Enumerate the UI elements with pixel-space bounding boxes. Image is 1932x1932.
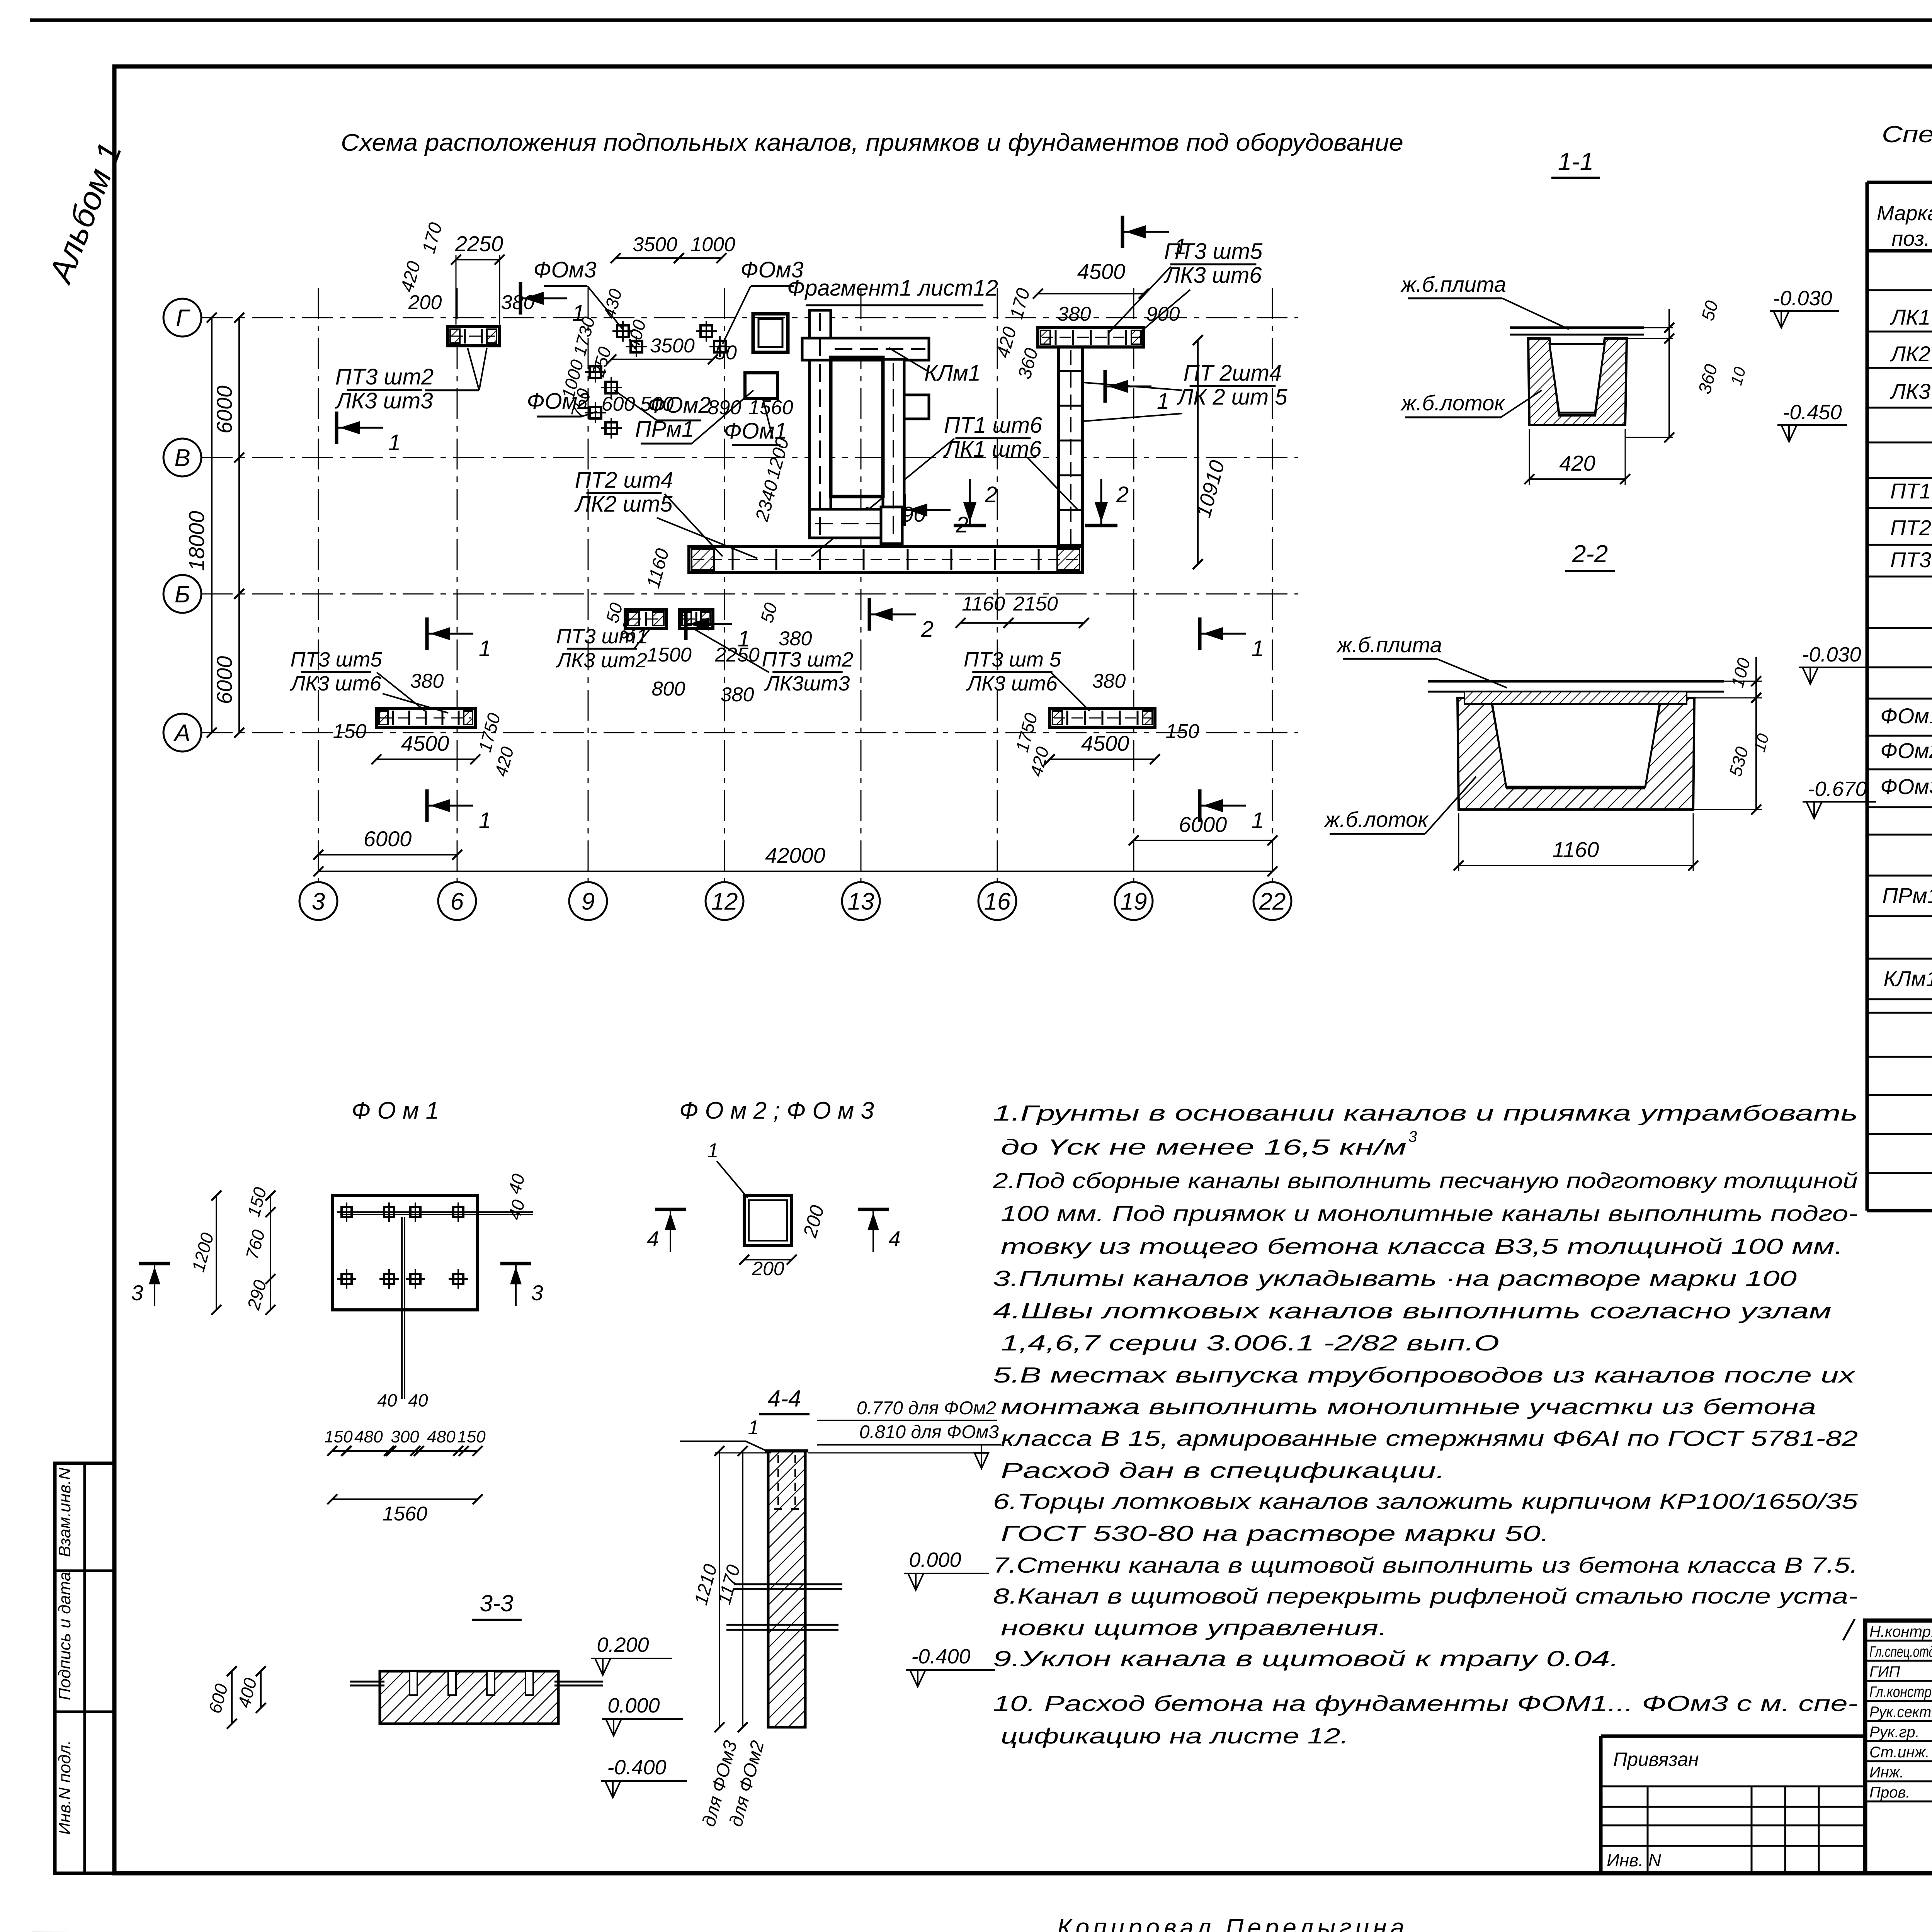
svg-text:ПТ3 шт 5: ПТ3 шт 5 — [964, 648, 1061, 671]
svg-text:Б: Б — [175, 581, 190, 608]
svg-text:-0.400: -0.400 — [607, 1756, 666, 1779]
svg-text:150: 150 — [457, 1427, 486, 1446]
section 1 marks А left channel — [425, 617, 429, 650]
left stamp box — [55, 1463, 114, 1873]
bottom dimension lines 6000/42000 — [313, 812, 1277, 876]
svg-text:-0.400: -0.400 — [911, 1645, 970, 1668]
svg-text:ЛК3 шт3: ЛК3 шт3 — [334, 388, 433, 413]
svg-text:1: 1 — [1174, 234, 1187, 259]
channel row А left: ПТ3 шт5 / ЛК3 шт6 — [376, 708, 475, 727]
foundation squares cluster — [585, 321, 730, 439]
svg-text:ЛК2: ЛК2 — [1890, 342, 1931, 366]
section 2 marks — [903, 494, 906, 526]
svg-text:Ф О м 2 ; Ф О м 3: Ф О м 2 ; Ф О м 3 — [679, 1097, 874, 1124]
svg-text:150: 150 — [324, 1427, 353, 1446]
svg-text:40: 40 — [408, 1390, 428, 1410]
svg-text:0.810 для ФОм3: 0.810 для ФОм3 — [859, 1422, 999, 1442]
svg-text:поз.: поз. — [1891, 227, 1930, 250]
svg-text:А: А — [173, 720, 190, 747]
svg-text:50: 50 — [714, 342, 737, 364]
svg-text:Ф О м 1: Ф О м 1 — [352, 1097, 439, 1124]
svg-text:ПТ3 шт5: ПТ3 шт5 — [291, 648, 383, 671]
detail ФОм2 leader 1 — [717, 1161, 748, 1198]
svg-text:2.Под сборные каналы выполнить: 2.Под сборные каналы выполнить песчаную … — [993, 1168, 1858, 1193]
svg-text:8.Канал в щитовой перекрыт: 8.Канал в щитовой перекрыть рифленой ста… — [993, 1584, 1858, 1609]
detail 4-4 pipes crossing — [734, 1583, 842, 1585]
svg-text:2250: 2250 — [714, 644, 760, 666]
svg-text:150: 150 — [333, 720, 367, 743]
detail ФОм1 bottom dims — [332, 1450, 478, 1452]
svg-text:1.Грунты в основании каналов и: 1.Грунты в основании каналов и приямка у… — [993, 1101, 1858, 1126]
svg-text:Марка,: Марка, — [1877, 202, 1932, 225]
svg-text:2-2: 2-2 — [1572, 540, 1608, 568]
svg-text:800: 800 — [652, 678, 685, 700]
svg-text:Гл.констр.: Гл.констр. — [1869, 1684, 1932, 1701]
svg-text:Спецификация к схеме расположе: Спецификация к схеме расположения подпол… — [1882, 121, 1932, 147]
svg-text:ЛК2 шт5: ЛК2 шт5 — [574, 492, 673, 517]
svg-text:Ст.инж.: Ст.инж. — [1869, 1744, 1930, 1761]
svg-text:В: В — [174, 445, 190, 471]
svg-text:ФОм3: ФОм3 — [1880, 774, 1932, 799]
svg-text:ЛК3 шт6: ЛК3 шт6 — [966, 672, 1058, 695]
svg-text:500: 500 — [640, 393, 674, 415]
svg-text:Рук.сект.: Рук.сект. — [1869, 1704, 1932, 1721]
svg-text:10. Расход бетона на фунд: 10. Расход бетона на фундаменты ФОМ1... … — [993, 1691, 1858, 1716]
svg-text:1: 1 — [1157, 389, 1169, 414]
plan row axes — [163, 288, 1298, 920]
spec table grid — [1867, 182, 1932, 1211]
svg-text:Н.контр.: Н.контр. — [1869, 1623, 1932, 1640]
section 1-1 trough — [1528, 338, 1627, 425]
svg-text:1: 1 — [479, 808, 491, 833]
svg-text:40: 40 — [377, 1390, 397, 1410]
svg-text:ЛК3: ЛК3 — [1890, 379, 1931, 403]
svg-text:200: 200 — [408, 291, 442, 314]
svg-text:19: 19 — [1121, 888, 1147, 915]
section 1-1 slab — [1510, 327, 1644, 329]
svg-text:380: 380 — [1092, 670, 1126, 692]
svg-text:Инв. N: Инв. N — [1607, 1850, 1662, 1870]
svg-text:5.В местах выпуска трубопров: 5.В местах выпуска трубопроводов из кана… — [993, 1363, 1856, 1388]
svg-text:1-1: 1-1 — [1558, 148, 1594, 175]
svg-text:380: 380 — [501, 291, 535, 314]
svg-text:900: 900 — [1146, 303, 1180, 325]
svg-text:0.200: 0.200 — [597, 1633, 649, 1656]
notes block — [993, 1101, 1858, 1748]
svg-text:2: 2 — [1116, 482, 1129, 507]
svg-text:ФОм2: ФОм2 — [1880, 738, 1932, 763]
КЛм1 wall centerline dashes — [815, 313, 925, 541]
dim 420 below section 1-1 — [1529, 478, 1625, 480]
svg-text:6000: 6000 — [364, 827, 412, 851]
svg-text:ЛК3шт3: ЛК3шт3 — [764, 672, 850, 695]
svg-text:300: 300 — [391, 1427, 419, 1446]
svg-text:-0.450: -0.450 — [1782, 401, 1842, 424]
mid channels below Б: ПТ3 шт1/ЛК3 шт2 and ПТ3 шт2/ЛК3шт3 — [625, 609, 667, 628]
section mark 1 near top-left channel — [519, 282, 522, 315]
svg-text:16: 16 — [984, 888, 1011, 915]
dims 3500 1000 top cluster — [616, 257, 679, 259]
svg-text:2250: 2250 — [455, 231, 503, 256]
svg-text:1000: 1000 — [690, 233, 735, 256]
svg-text:ПТ2: ПТ2 — [1890, 515, 1931, 540]
svg-text:2: 2 — [985, 482, 997, 507]
channel top-left ПТ3 шт2 / ЛК3 шт3 — [447, 327, 499, 346]
svg-text:1560: 1560 — [383, 1503, 427, 1525]
slash mark — [1843, 1619, 1855, 1640]
svg-text:4500: 4500 — [1081, 731, 1129, 755]
svg-text:2: 2 — [921, 617, 934, 642]
section 2-2 slab hatch — [1464, 692, 1687, 704]
priamok ПРм1 squares — [753, 314, 788, 352]
svg-text:до Үск не менее 16,5 кн/м: до Үск не менее 16,5 кн/м — [1001, 1135, 1406, 1160]
svg-text:1500: 1500 — [647, 644, 692, 666]
svg-text:ГИП: ГИП — [1869, 1663, 1900, 1680]
svg-text:Привязан: Привязан — [1613, 1748, 1699, 1770]
detail ФОм1 left dims — [270, 1196, 271, 1310]
vertical channel dividers — [1060, 350, 1081, 546]
svg-text:1: 1 — [1252, 808, 1264, 833]
svg-text:1: 1 — [738, 626, 750, 651]
dim 1160 below section 2-2 — [1459, 865, 1693, 866]
svg-text:890: 890 — [708, 396, 742, 419]
svg-text:4: 4 — [647, 1226, 659, 1251]
detail ФОм1 section marks 3 — [139, 1262, 170, 1265]
section 2-2 slab — [1428, 680, 1724, 683]
svg-text:цификацию на листе 12.: цификацию на листе 12. — [1001, 1724, 1349, 1748]
title block roles/names/dates — [1869, 1622, 1932, 1801]
detail 4-4 anchor dashed — [777, 1455, 779, 1509]
svg-text:товку из тощего бетона к: товку из тощего бетона класса В3,5 толщи… — [1001, 1234, 1843, 1259]
title block signature grid — [1865, 1621, 1932, 1873]
channel row А right: ПТ3 шт5 / ЛК3 шт6 — [1050, 708, 1155, 727]
svg-text:-0.030: -0.030 — [1802, 643, 1861, 666]
svg-text:Подпись и дата: Подпись и дата — [55, 1572, 74, 1701]
svg-text:1: 1 — [748, 1417, 759, 1439]
svg-text:ПТ3 шт2: ПТ3 шт2 — [762, 648, 854, 671]
svg-text:ж.б.плита: ж.б.плита — [1336, 633, 1442, 657]
svg-text:1: 1 — [479, 636, 491, 661]
vertical channel right (ПТ 2шт4 / ЛК 2шт5) — [1059, 347, 1083, 548]
detail 3-3 slab — [380, 1671, 558, 1724]
svg-text:ЛК3 шт2: ЛК3 шт2 — [556, 649, 647, 672]
detail ФОм2 square — [744, 1196, 792, 1245]
dims 3500 50 — [611, 359, 713, 360]
svg-text:ЛК3 шт6: ЛК3 шт6 — [1163, 263, 1262, 288]
svg-text:1160: 1160 — [1553, 837, 1599, 862]
svg-text:480: 480 — [354, 1427, 383, 1446]
section mark 1 above — [1121, 216, 1124, 248]
section 1 marks А right channel — [1198, 617, 1202, 650]
svg-text:-0.030: -0.030 — [1773, 287, 1832, 310]
svg-text:монтажа выполнить монолитны: монтажа выполнить монолитные участки из … — [1001, 1395, 1816, 1419]
svg-text:ЛК1 шт6: ЛК1 шт6 — [943, 437, 1042, 462]
lower-left stamp Привязан — [1601, 1735, 1865, 1738]
svg-text:-0.670: -0.670 — [1808, 777, 1867, 801]
svg-text:150: 150 — [1166, 720, 1199, 743]
svg-text:ПТ1: ПТ1 — [1890, 479, 1931, 503]
svg-text:9.Уклон канала в щитовой: 9.Уклон канала в щитовой к трапу 0.04. — [993, 1646, 1619, 1671]
svg-text:3500: 3500 — [633, 233, 677, 256]
svg-text:ФОм1: ФОм1 — [1880, 704, 1932, 728]
svg-text:ж.б.лоток: ж.б.лоток — [1400, 391, 1505, 415]
svg-text:12: 12 — [711, 888, 738, 915]
long bottom channel ПТ1 шт6 / ЛК1 шт6 — [689, 546, 1082, 573]
svg-text:200: 200 — [752, 1258, 784, 1279]
svg-text:9: 9 — [582, 888, 595, 915]
svg-text:1560: 1560 — [748, 396, 793, 419]
svg-text:22: 22 — [1259, 888, 1286, 915]
section 2 mark mid — [868, 598, 871, 631]
svg-text:2150: 2150 — [1013, 593, 1058, 615]
left dimension lines 6000/18000 — [184, 313, 244, 738]
section 1 mark mid — [684, 608, 688, 640]
title block outer — [1865, 1621, 1932, 1873]
svg-text:6000: 6000 — [212, 386, 236, 434]
svg-text:6.Торцы лотковых каналов: 6.Торцы лотковых каналов заложить кирпич… — [993, 1489, 1858, 1514]
svg-text:КЛм1: КЛм1 — [924, 361, 981, 386]
svg-text:ж.б.плита: ж.б.плита — [1400, 272, 1506, 296]
svg-text:1: 1 — [1252, 636, 1264, 661]
svg-text:1: 1 — [388, 430, 401, 455]
svg-text:4: 4 — [888, 1226, 900, 1251]
section 1-1 inner cavity — [1549, 344, 1605, 413]
svg-text:4.Швы лотковых каналов: 4.Швы лотковых каналов выполнить согласн… — [993, 1299, 1832, 1323]
section 2-2 trough hatched — [1458, 698, 1694, 810]
svg-text:ПТ1 шт6: ПТ1 шт6 — [944, 413, 1043, 438]
section mark 1 on vertical channel — [1104, 370, 1107, 403]
svg-text:420: 420 — [1559, 451, 1595, 475]
svg-text:1,4,6,7 серии 3.006.1 -2/8: 1,4,6,7 серии 3.006.1 -2/82 вып.О — [1001, 1331, 1499, 1355]
section 2-2 inner cavity — [1492, 704, 1660, 787]
svg-text:0.000: 0.000 — [607, 1694, 660, 1717]
lower-left stamp grid — [1601, 1786, 1865, 1873]
svg-text:380: 380 — [1058, 303, 1091, 325]
svg-text:380: 380 — [779, 628, 812, 650]
svg-text:ЛК1: ЛК1 — [1890, 305, 1931, 329]
svg-text:7.Стенки канала в щитовой: 7.Стенки канала в щитовой выполнить из б… — [993, 1553, 1858, 1578]
svg-text:ПТ3 шт1: ПТ3 шт1 — [556, 625, 648, 648]
svg-text:Фрагмент1 лист12: Фрагмент1 лист12 — [787, 276, 998, 301]
svg-text:3-3: 3-3 — [480, 1590, 514, 1616]
detail 3-3 left dims 600 400 — [231, 1671, 233, 1724]
svg-text:6000: 6000 — [212, 656, 236, 704]
svg-text:ПТ2 шт4: ПТ2 шт4 — [575, 468, 673, 493]
svg-text:4500: 4500 — [1077, 259, 1126, 284]
svg-text:0.770 для ФОм2: 0.770 для ФОм2 — [857, 1398, 996, 1418]
dim 4500 top-right — [1038, 293, 1144, 294]
svg-text:Инж.: Инж. — [1869, 1764, 1904, 1781]
svg-text:ФОм3: ФОм3 — [740, 257, 803, 282]
channel top-right ПТ3 шт5 / ЛК3 шт6 — [1038, 328, 1144, 347]
svg-text:Копировал Перелыгина: Копировал Перелыгина — [1057, 1913, 1408, 1932]
svg-text:Пров.: Пров. — [1869, 1784, 1910, 1801]
svg-text:1160: 1160 — [962, 593, 1005, 615]
svg-text:13: 13 — [848, 888, 874, 915]
svg-text:3.Плиты каналов укладывать: 3.Плиты каналов укладывать ·на растворе … — [993, 1266, 1797, 1291]
svg-text:Расход дан в спецификации: Расход дан в спецификации. — [1001, 1458, 1445, 1483]
svg-text:ГОСТ 530-80 на растворе ма: ГОСТ 530-80 на растворе марки 50. — [1001, 1521, 1549, 1546]
svg-text:6: 6 — [451, 888, 464, 915]
svg-text:Взам.инв.N: Взам.инв.N — [55, 1468, 74, 1557]
svg-text:480: 480 — [427, 1427, 456, 1446]
svg-text:Схема расположения подпольных: Схема расположения подпольных каналов, п… — [341, 129, 1403, 156]
section 1-1 right dims — [1644, 327, 1673, 328]
svg-text:0.000: 0.000 — [909, 1548, 961, 1571]
svg-text:4500: 4500 — [401, 731, 449, 755]
svg-text:ЛК3 шт6: ЛК3 шт6 — [290, 672, 382, 695]
svg-text:380: 380 — [721, 684, 754, 706]
detail ФОм1 rectangle — [332, 1196, 478, 1310]
svg-text:1: 1 — [707, 1139, 719, 1162]
svg-text:ПТ3: ПТ3 — [1890, 548, 1931, 572]
svg-text:ПРм1: ПРм1 — [1882, 883, 1932, 908]
svg-text:ж.б.лоток: ж.б.лоток — [1323, 807, 1429, 832]
svg-text:18000: 18000 — [184, 511, 209, 571]
svg-text:3: 3 — [1408, 1128, 1417, 1145]
detail 4-4 left dims 1210 1170 — [719, 1451, 720, 1727]
svg-text:380: 380 — [410, 670, 444, 692]
svg-text:Инв.N подл.: Инв.N подл. — [55, 1740, 74, 1835]
dim 10910 rot — [1197, 340, 1199, 564]
svg-text:42000: 42000 — [765, 843, 825, 867]
svg-text:100 мм. Под приямок и моно: 100 мм. Под приямок и монолитные каналы … — [1001, 1201, 1858, 1226]
paper top edge line — [30, 19, 1932, 22]
detail 4-4 leader 1 — [746, 1441, 771, 1453]
svg-text:6000: 6000 — [1179, 812, 1227, 837]
svg-text:ФОм3: ФОм3 — [533, 257, 596, 282]
svg-text:ПТ3 шт2: ПТ3 шт2 — [335, 364, 434, 389]
svg-text:Рук.гр.: Рук.гр. — [1869, 1724, 1920, 1741]
КЛм1 inner wall rectangle — [831, 357, 883, 497]
svg-text:3: 3 — [312, 888, 325, 915]
svg-text:3: 3 — [531, 1281, 543, 1305]
svg-text:ЛК 2 шт 5: ЛК 2 шт 5 — [1176, 384, 1287, 410]
svg-text:Гл.спец.отд: Гл.спец.отд — [1869, 1643, 1932, 1660]
svg-text:новки щитов управления.: новки щитов управления. — [1001, 1616, 1387, 1640]
svg-text:КЛм1: КЛм1 — [1884, 966, 1932, 991]
svg-text:4-4: 4-4 — [768, 1386, 801, 1412]
svg-text:Г: Г — [176, 305, 190, 332]
svg-text:600: 600 — [602, 393, 635, 415]
detail ФОм1 anchor squares — [337, 1202, 533, 1399]
svg-text:класса В 15, армированные: класса В 15, армированные стержнями Ф6АI… — [1001, 1426, 1858, 1451]
detail 4-4 bar — [768, 1451, 805, 1727]
svg-text:3500: 3500 — [650, 335, 695, 357]
monolithic channel КЛм1 walls (double lines) — [802, 310, 929, 544]
svg-text:3: 3 — [131, 1281, 143, 1305]
section 2-2 right dims — [1724, 681, 1762, 682]
dim 2250 top-left channel — [456, 259, 500, 260]
detail ФОм2 section marks 4 — [655, 1208, 686, 1211]
